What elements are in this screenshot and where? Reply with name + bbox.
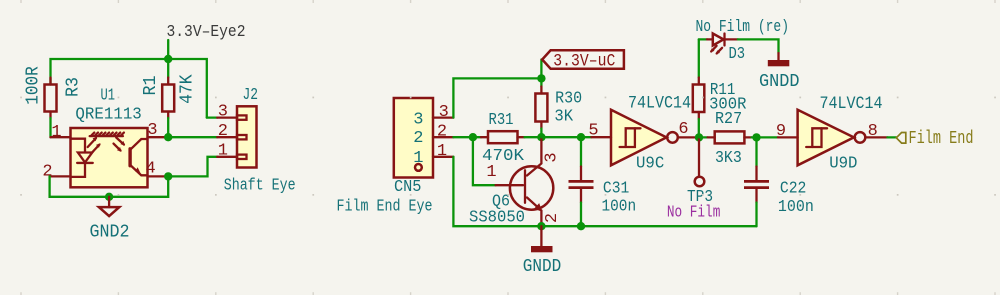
U1 sensing window hatch	[90, 133, 124, 137]
CN5 pin 3	[433, 116, 453, 118]
J2 pin 2 number	[218, 122, 228, 141]
svg-text:3K3: 3K3	[715, 149, 742, 168]
svg-text:1: 1	[437, 142, 447, 161]
svg-text:R31: R31	[489, 111, 514, 130]
node junction U1 pin3	[164, 133, 172, 141]
svg-text:74LVC14: 74LVC14	[820, 94, 883, 114]
svg-text:No Film: No Film	[667, 203, 721, 222]
C31 ref	[603, 179, 629, 198]
TP3 value No Film	[667, 203, 721, 222]
GNDD middle label	[523, 257, 562, 277]
U9C value 74LVC14	[628, 94, 691, 114]
node junction U1 pin4	[164, 172, 172, 180]
svg-text:SS8050: SS8050	[469, 208, 525, 227]
Q6 value SS8050	[469, 208, 525, 227]
svg-text:74LVC14: 74LVC14	[628, 94, 691, 114]
CN5 pin1 socket circle	[415, 164, 422, 171]
CN5 pin 1	[433, 156, 453, 158]
GND2 label	[90, 222, 130, 242]
resistor R27	[699, 131, 757, 143]
U9C output pin 6	[678, 136, 699, 138]
J2 value Shaft Eye	[224, 175, 296, 194]
svg-text:100n: 100n	[602, 198, 637, 217]
C22 value 100n	[778, 198, 814, 217]
C22 ref	[780, 179, 807, 198]
U9D input pin 9	[778, 136, 798, 138]
U1 emission arrows	[88, 137, 125, 154]
svg-text:Film End Eye: Film End Eye	[337, 197, 433, 216]
U1 internal LED	[71, 139, 93, 177]
ground GNDD middle	[531, 226, 553, 252]
J2 pin 1 number	[218, 142, 228, 161]
wire CN5 pin3 to 3.3V rail	[453, 78, 541, 117]
U1 pin 4	[148, 175, 169, 177]
CN5 pin 3 number	[439, 103, 449, 122]
U1 internal phototransistor	[130, 139, 147, 176]
inverter U9C 74LVC14	[611, 110, 678, 166]
svg-text:GND2: GND2	[90, 222, 130, 242]
Q6 ref	[492, 192, 510, 211]
svg-text:GNDD: GNDD	[759, 72, 800, 92]
wire C31 to U9C input	[581, 136, 591, 138]
svg-text:2: 2	[42, 162, 52, 181]
U1 pin 3 number	[147, 121, 157, 140]
J2 ref	[242, 86, 258, 105]
CN5 pin name 1	[413, 149, 423, 168]
svg-text:9: 9	[776, 122, 786, 141]
node junction 3.3V	[537, 74, 545, 82]
wire Q6 base	[473, 137, 496, 185]
wire R1 bottom	[167, 118, 169, 137]
connector CN5 body	[394, 98, 433, 178]
svg-text:3: 3	[218, 102, 228, 121]
R3 ref (rotated)	[63, 77, 84, 97]
U9D ref	[829, 155, 857, 174]
connector J2 body	[237, 106, 257, 167]
wire top-left rail	[51, 59, 207, 118]
resistor R1	[162, 78, 174, 119]
svg-text:Shaft Eye: Shaft Eye	[224, 175, 296, 194]
CN5 pin 2	[433, 136, 453, 138]
svg-text:3K: 3K	[554, 108, 573, 127]
svg-text:GNDD: GNDD	[523, 257, 562, 277]
node junction R30 bottom	[537, 133, 545, 141]
svg-text:3.3V–uC: 3.3V–uC	[553, 52, 615, 72]
CN5 value Film End Eye	[337, 197, 433, 216]
C31 value 100n	[602, 198, 637, 217]
R27 ref	[715, 110, 742, 129]
resistor R3	[45, 78, 57, 119]
svg-text:5: 5	[588, 122, 598, 141]
svg-text:R3: R3	[63, 77, 84, 97]
U1 pin 2 number	[42, 162, 52, 181]
J2 pin 2	[217, 135, 246, 139]
J2 pin 1	[217, 155, 246, 159]
capacitor C22	[744, 137, 769, 226]
svg-text:CN5: CN5	[394, 178, 422, 197]
capacitor C31	[569, 137, 594, 226]
CN5 ref	[394, 178, 422, 197]
D3 ref	[729, 45, 746, 64]
U1 value QRE1113	[75, 106, 141, 125]
svg-text:U9C: U9C	[636, 155, 664, 174]
svg-text:3: 3	[543, 152, 562, 162]
svg-text:2: 2	[218, 122, 228, 141]
svg-text:1: 1	[218, 142, 228, 161]
Q6 pin 3 number (rotated)	[543, 152, 562, 162]
wire junction to U9D input	[757, 136, 778, 138]
U1 pin 4 number	[145, 160, 155, 179]
wire J2 pin3 stub	[207, 116, 217, 118]
wire U9D out stub	[887, 136, 896, 138]
ground GNDD right	[768, 53, 790, 66]
J2 pin 3	[217, 115, 246, 119]
U9C pin 5 number	[588, 122, 598, 141]
R11 ref	[710, 81, 735, 100]
svg-text:1: 1	[51, 123, 61, 142]
R27 value 3K3	[715, 149, 742, 168]
wire D3 cathode to GNDD	[738, 39, 779, 53]
TP3 ref	[687, 188, 713, 207]
GNDD right label	[759, 72, 800, 92]
test point TP3	[695, 137, 705, 186]
node junction C31 bottom	[577, 222, 585, 230]
wire U1 pin3 to J2 pin2	[168, 136, 217, 138]
CN5 pin name 3	[413, 110, 423, 129]
diode D3 LED	[699, 34, 738, 55]
resistor R30	[535, 78, 547, 137]
R1 ref (rotated)	[140, 76, 161, 96]
node junction C31 top	[577, 133, 585, 141]
svg-text:2: 2	[437, 123, 447, 142]
U9D pin 8 number	[868, 122, 878, 141]
svg-text:3.3V–Eye2: 3.3V–Eye2	[167, 23, 246, 42]
node junction emitter GNDD	[537, 222, 545, 230]
label No Film (re)	[696, 17, 790, 36]
inverter U9D 74LVC14	[798, 110, 866, 166]
svg-text:3: 3	[147, 121, 157, 140]
svg-text:C31: C31	[603, 179, 629, 198]
svg-text:1: 1	[486, 163, 496, 182]
svg-text:J2: J2	[242, 86, 258, 105]
Q6 pin 1 number	[486, 163, 496, 182]
svg-text:R27: R27	[715, 110, 742, 129]
CN5 pin name 2	[413, 129, 423, 148]
CN5 pin 1 number	[437, 142, 447, 161]
svg-text:47K: 47K	[177, 74, 198, 104]
wire R3 bottom	[49, 118, 51, 137]
node junction ground rail	[105, 193, 113, 201]
R31 value 470K	[482, 147, 525, 166]
grid dots	[20, 97, 996, 196]
U1 pin 3	[148, 136, 169, 138]
svg-text:U9D: U9D	[829, 155, 857, 174]
svg-text:C22: C22	[780, 179, 807, 198]
node junction top rail	[164, 55, 172, 63]
U9D output pin 8	[865, 136, 887, 138]
U9C pin 6 number	[678, 120, 688, 139]
ground GND2 symbol	[99, 197, 119, 216]
Q6 pin 2 number (rotated)	[543, 213, 562, 223]
resistor R31	[473, 131, 542, 143]
node junction R31 left	[469, 133, 477, 141]
svg-text:Film End: Film End	[909, 129, 974, 149]
U1 pin 1 number	[51, 123, 61, 142]
svg-text:100n: 100n	[778, 198, 814, 217]
wire CN5 pin2 to junction	[453, 136, 473, 138]
svg-text:U1: U1	[101, 87, 116, 106]
U9D value 74LVC14	[820, 94, 883, 114]
U1 pin 1	[51, 136, 71, 138]
svg-text:2: 2	[543, 213, 562, 223]
resistor R11	[693, 39, 705, 137]
R3 value 100R (rotated)	[22, 66, 43, 105]
svg-text:D3: D3	[729, 45, 746, 64]
svg-text:2: 2	[413, 129, 423, 148]
svg-text:100R: 100R	[22, 66, 43, 105]
svg-text:8: 8	[868, 122, 878, 141]
svg-text:QRE1113: QRE1113	[75, 106, 141, 125]
wire R1 top	[167, 59, 169, 78]
R30 value 3K	[554, 108, 573, 127]
svg-text:R30: R30	[555, 90, 582, 109]
svg-text:6: 6	[678, 120, 688, 139]
wire main line to C31	[541, 136, 581, 138]
R1 value 47K (rotated)	[177, 74, 198, 104]
U9C ref	[636, 155, 664, 174]
svg-text:3: 3	[439, 103, 449, 122]
wire U1 pin4 to J2 pin1	[168, 157, 217, 177]
U9D pin 9 number	[776, 122, 786, 141]
label 3.3V-Eye2	[167, 23, 246, 42]
R30 ref	[555, 90, 582, 109]
wire CN5 pin1 to bottom rail	[453, 157, 756, 226]
U1 ref	[101, 87, 116, 106]
U9C input pin 5	[591, 136, 611, 138]
global label Film End	[896, 129, 973, 149]
svg-text:No Film (re): No Film (re)	[696, 17, 790, 36]
R11 value 300R	[709, 96, 746, 115]
transistor Q6 SS8050	[496, 137, 554, 226]
node junction U9C out R11 TP3 R27	[695, 133, 703, 141]
power flag 3.3V-uC	[541, 50, 624, 78]
svg-text:R1: R1	[140, 76, 161, 96]
wire U1 pin2 to ground rail	[50, 176, 169, 196]
U1 pin 2	[50, 175, 71, 177]
node junction R27 right C22	[752, 133, 760, 141]
CN5 pin 2 number	[437, 123, 447, 142]
svg-text:3: 3	[413, 110, 423, 129]
R31 ref	[489, 111, 514, 130]
opto U1 QRE1113 body	[71, 128, 148, 187]
wire 3.3V-Eye2 stub	[167, 40, 169, 59]
J2 pin 3 number	[218, 102, 228, 121]
